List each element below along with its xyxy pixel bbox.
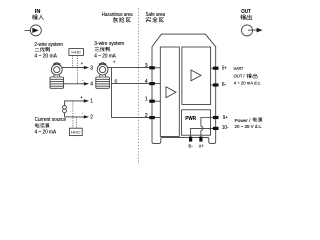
transmitter T2 (3-wire) (96, 63, 110, 89)
svg-text:2-wire system: 2-wire system (34, 42, 62, 48)
svg-text:4 ~ 20 mA: 4 ~ 20 mA (94, 53, 116, 59)
svg-text:3: 3 (90, 65, 93, 71)
svg-text:Hazardous area: Hazardous area (102, 12, 133, 18)
wire 3-wire minus to terminal 2 (112, 117, 150, 119)
wire A+ vertical (200, 130, 202, 139)
svg-text:OUT: OUT (241, 9, 251, 15)
label 电流源 (35, 123, 49, 127)
svg-text:4: 4 (145, 79, 148, 85)
wire terminal 6 stub (211, 84, 216, 86)
svg-text:HHC: HHC (71, 51, 81, 55)
transmitter T1 (2-wire) (50, 63, 64, 89)
svg-text:B-: B- (188, 143, 193, 149)
PWR power supply box (182, 110, 211, 135)
wire terminal 4 stub (152, 83, 160, 85)
svg-text:HART: HART (234, 66, 244, 71)
svg-text:10-: 10- (222, 125, 229, 131)
terminal 2 (149, 116, 155, 119)
svg-text:4 ~ 20 mA: 4 ~ 20 mA (34, 53, 57, 59)
terminal 10- (213, 127, 219, 130)
wire 2-wire minus to terminal 4 (64, 78, 94, 87)
net label 危险区 (113, 17, 130, 22)
terminal 4 (149, 82, 155, 85)
svg-text:4 ~ 20 mA: 4 ~ 20 mA (35, 129, 57, 135)
wire terminal 1 stub (152, 100, 160, 102)
net label 安全区 (146, 17, 164, 22)
wire 10- to B- (191, 128, 216, 139)
terminal 1 (149, 100, 155, 103)
svg-text:9+: 9+ (223, 115, 228, 121)
HHC communicator box (bottom) (69, 101, 82, 136)
wire current source plus to terminal 1 (65, 95, 94, 105)
svg-text:1: 1 (145, 96, 148, 102)
svg-text:Power /: Power / (235, 118, 252, 123)
node IN chinese 输入 (32, 15, 43, 20)
svg-text:5+: 5+ (222, 65, 227, 71)
isolator output stage box (182, 47, 211, 105)
wire hop over 10- wire (201, 126, 203, 130)
svg-text:+: + (113, 60, 116, 65)
signal source IN symbol (25, 25, 42, 36)
terminal A+ (199, 137, 202, 142)
wire 9+ to PWR (201, 118, 216, 127)
terminal 9+ (213, 116, 219, 119)
wire terminal 3 stub (152, 67, 160, 69)
terminal 5+ (213, 67, 219, 70)
svg-text:4 ~ 20 mA d.c.: 4 ~ 20 mA d.c. (234, 81, 262, 86)
svg-text:2: 2 (145, 113, 148, 119)
wire terminal 2 stub (152, 117, 160, 119)
label 二线制 (35, 47, 50, 51)
svg-text:6-: 6- (222, 82, 227, 88)
area divider dashed line (138, 9, 140, 165)
svg-text:1: 1 (90, 99, 93, 105)
svg-text:20 ~ 35 V d.c.: 20 ~ 35 V d.c. (235, 124, 263, 129)
svg-text:IN: IN (35, 9, 41, 15)
svg-text:PWR: PWR (185, 116, 196, 122)
terminal B- (189, 137, 192, 142)
svg-text:+: + (80, 95, 83, 100)
isolator input stage box (160, 47, 179, 137)
svg-text:A+: A+ (199, 143, 204, 149)
wire 2-wire plus to terminal 3 (62, 61, 94, 72)
wire terminal 5 stub (211, 67, 216, 69)
svg-text:OUT /: OUT / (234, 74, 246, 79)
svg-text:3: 3 (145, 63, 148, 69)
wire 3-wire plus to terminal 3 (107, 67, 149, 69)
wire current source minus to terminal 2 (65, 111, 94, 121)
signal sink OUT symbol (242, 25, 263, 36)
wire 3-wire signal to terminal 4 (112, 83, 150, 85)
wire 3-wire common vertical (111, 68, 113, 118)
svg-text:Safe area: Safe area (146, 12, 166, 18)
svg-text:4: 4 (90, 82, 93, 88)
terminal 3 (149, 66, 155, 69)
current source symbol I1 (63, 105, 67, 112)
amplifier A2 (output stage) (191, 70, 201, 81)
node OUT chinese 输出 (240, 15, 251, 20)
label 三线制 (95, 47, 110, 51)
svg-text:+: + (81, 61, 84, 66)
svg-text:Current source: Current source (35, 117, 67, 123)
terminal 6- (213, 83, 219, 86)
amplifier A1 (input stage) (166, 87, 176, 98)
isolator U1 housing (152, 34, 216, 143)
svg-text:S: S (114, 79, 117, 84)
svg-text:HHC: HHC (71, 131, 81, 135)
HHC communicator box (top) (69, 49, 84, 84)
svg-text:3-wire system: 3-wire system (94, 41, 124, 47)
svg-text:2: 2 (90, 115, 93, 121)
